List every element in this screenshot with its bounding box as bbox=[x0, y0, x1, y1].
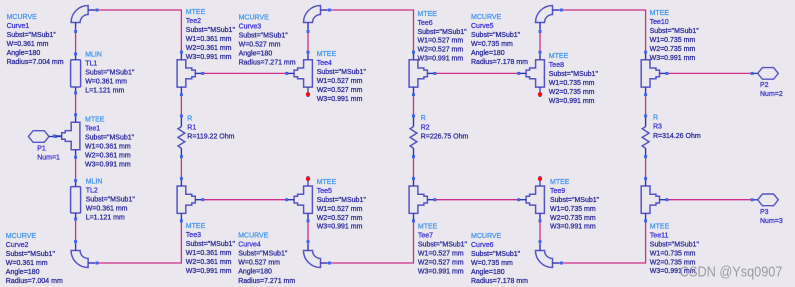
wire Tee4 to Curve3 bbox=[307, 32, 309, 52]
wire Tee10 to P2 bbox=[668, 72, 750, 74]
wire Tee10 to R3 bbox=[645, 95, 647, 115]
svg-text:Subst="MSub1": Subst="MSub1" bbox=[239, 32, 289, 39]
svg-text:W2=0.527 mm: W2=0.527 mm bbox=[418, 47, 464, 54]
svg-text:Tee3: Tee3 bbox=[186, 232, 201, 239]
svg-text:CSDN @Ysq0907: CSDN @Ysq0907 bbox=[680, 263, 783, 279]
svg-text:Subst="MSub1": Subst="MSub1" bbox=[471, 32, 521, 39]
svg-text:Tee11: Tee11 bbox=[650, 232, 669, 239]
svg-text:P1: P1 bbox=[37, 146, 46, 153]
svg-text:Curve3: Curve3 bbox=[239, 23, 262, 30]
svg-text:Curve4: Curve4 bbox=[238, 242, 261, 249]
svg-text:W3=0.991 mm: W3=0.991 mm bbox=[418, 268, 464, 275]
svg-text:Angle=180: Angle=180 bbox=[238, 269, 272, 276]
svg-text:Angle=180: Angle=180 bbox=[6, 269, 40, 276]
svg-text:W=0.361 mm: W=0.361 mm bbox=[6, 260, 48, 267]
mlin TL2 bbox=[71, 179, 136, 222]
svg-text:Subst="MSub1": Subst="MSub1" bbox=[418, 241, 468, 248]
svg-text:Subst="MSub1": Subst="MSub1" bbox=[238, 251, 288, 258]
wire R3 to Tee11 bbox=[645, 158, 647, 178]
svg-text:W2=0.735 mm: W2=0.735 mm bbox=[650, 46, 696, 53]
svg-text:Subst="MSub1": Subst="MSub1" bbox=[85, 134, 135, 141]
svg-text:W3=0.991 mm: W3=0.991 mm bbox=[550, 224, 596, 231]
svg-text:W2=0.735 mm: W2=0.735 mm bbox=[549, 89, 595, 96]
svg-text:P2: P2 bbox=[760, 82, 769, 89]
svg-text:MCURVE: MCURVE bbox=[239, 14, 270, 21]
svg-text:R=119.22 Ohm: R=119.22 Ohm bbox=[187, 134, 234, 141]
svg-text:R1: R1 bbox=[187, 125, 196, 132]
svg-text:Subst="MSub1": Subst="MSub1" bbox=[549, 71, 599, 78]
svg-text:Subst="MSub1": Subst="MSub1" bbox=[650, 241, 700, 248]
curve Curve4 MCURVE bbox=[238, 233, 331, 285]
svg-text:W3=0.991 mm: W3=0.991 mm bbox=[549, 98, 595, 105]
wire Curve4 to Tee7 (bottom rail) bbox=[331, 222, 414, 263]
wire Tee2 to Tee4 bbox=[204, 72, 285, 74]
curve Curve2 MCURVE bbox=[6, 233, 99, 285]
svg-text:Radius=7.178 mm: Radius=7.178 mm bbox=[471, 278, 528, 285]
svg-text:Tee9: Tee9 bbox=[550, 188, 565, 195]
svg-text:W3=0.991 mm: W3=0.991 mm bbox=[418, 56, 464, 63]
svg-text:Tee7: Tee7 bbox=[418, 233, 433, 240]
svg-text:W3=0.991 mm: W3=0.991 mm bbox=[186, 268, 232, 275]
resistor R1 bbox=[178, 114, 235, 158]
svg-text:Angle=180: Angle=180 bbox=[239, 50, 273, 57]
svg-text:Curve6: Curve6 bbox=[471, 242, 494, 249]
svg-text:W3=0.991 mm: W3=0.991 mm bbox=[186, 54, 232, 61]
svg-text:MTEE: MTEE bbox=[550, 179, 570, 186]
svg-text:R=226.75 Ohm: R=226.75 Ohm bbox=[421, 134, 469, 141]
svg-text:MCURVE: MCURVE bbox=[7, 14, 38, 21]
port P2 bbox=[751, 68, 783, 98]
svg-text:MTEE: MTEE bbox=[650, 10, 670, 17]
svg-text:R3: R3 bbox=[653, 124, 662, 131]
svg-text:Num=3: Num=3 bbox=[760, 218, 783, 225]
svg-text:W1=0.735 mm: W1=0.735 mm bbox=[549, 80, 595, 87]
svg-text:Subst="MSub1": Subst="MSub1" bbox=[550, 197, 600, 204]
svg-text:Curve2: Curve2 bbox=[6, 242, 29, 249]
svg-text:L=1.121 mm: L=1.121 mm bbox=[86, 215, 125, 222]
svg-text:MLIN: MLIN bbox=[85, 52, 102, 59]
wire Tee5 to Curve4 bbox=[307, 222, 309, 240]
wire Curve5 to Tee10 (top rail) bbox=[563, 10, 646, 52]
svg-text:W1=0.527 mm: W1=0.527 mm bbox=[418, 250, 464, 257]
svg-text:MTEE: MTEE bbox=[317, 179, 337, 186]
svg-text:Radius=7.004 mm: Radius=7.004 mm bbox=[6, 278, 63, 285]
svg-text:W1=0.361 mm: W1=0.361 mm bbox=[85, 143, 131, 150]
svg-text:Subst="MSub1": Subst="MSub1" bbox=[317, 69, 367, 76]
svg-text:TL1: TL1 bbox=[85, 61, 97, 68]
svg-text:W2=0.527 mm: W2=0.527 mm bbox=[317, 215, 363, 222]
port P3 bbox=[751, 194, 783, 225]
svg-text:Angle=180: Angle=180 bbox=[471, 50, 505, 57]
svg-text:MTEE: MTEE bbox=[418, 11, 438, 18]
svg-text:W1=0.527 mm: W1=0.527 mm bbox=[317, 78, 363, 85]
svg-text:Radius=7.271 mm: Radius=7.271 mm bbox=[239, 59, 296, 66]
tee Tee9 MTEE bbox=[517, 176, 599, 231]
curve Curve3 MCURVE bbox=[239, 6, 331, 67]
wire TL2 to Curve2 bbox=[75, 220, 77, 240]
resistor R3 bbox=[642, 114, 701, 158]
svg-text:Curve5: Curve5 bbox=[471, 23, 494, 30]
tee Tee8 MTEE bbox=[517, 51, 598, 105]
svg-text:Radius=7.004 mm: Radius=7.004 mm bbox=[7, 59, 64, 66]
svg-text:W3=0.991 mm: W3=0.991 mm bbox=[650, 55, 696, 62]
svg-text:MCURVE: MCURVE bbox=[471, 14, 502, 21]
svg-text:Subst="MSub1": Subst="MSub1" bbox=[6, 251, 56, 258]
tee Tee3 MTEE bbox=[177, 177, 235, 275]
svg-text:MTEE: MTEE bbox=[650, 224, 670, 231]
svg-text:W3=0.991 mm: W3=0.991 mm bbox=[317, 96, 363, 103]
wire Tee11 to P3 bbox=[668, 199, 750, 201]
svg-text:Tee6: Tee6 bbox=[418, 20, 433, 27]
svg-text:MTEE: MTEE bbox=[549, 53, 569, 60]
svg-text:Radius=7.271 mm: Radius=7.271 mm bbox=[238, 278, 295, 285]
watermark bbox=[680, 263, 783, 279]
svg-text:W=0.361 mm: W=0.361 mm bbox=[7, 41, 49, 48]
svg-text:Subst="MSub1": Subst="MSub1" bbox=[418, 29, 468, 36]
svg-text:MLIN: MLIN bbox=[86, 179, 103, 186]
svg-text:R: R bbox=[421, 115, 426, 122]
svg-text:R: R bbox=[653, 115, 658, 122]
wire Tee6 to Tee8 bbox=[436, 72, 517, 74]
svg-text:Curve1: Curve1 bbox=[7, 23, 30, 30]
resistor R2 bbox=[410, 114, 468, 158]
tee Tee7 MTEE bbox=[409, 177, 467, 275]
svg-text:W1=0.735 mm: W1=0.735 mm bbox=[550, 206, 596, 213]
svg-text:Subst="MSub1": Subst="MSub1" bbox=[471, 251, 521, 258]
svg-text:W=0.527 mm: W=0.527 mm bbox=[239, 41, 281, 48]
svg-text:W1=0.735 mm: W1=0.735 mm bbox=[650, 250, 696, 257]
svg-text:Num=1: Num=1 bbox=[37, 155, 60, 162]
svg-text:W1=0.735 mm: W1=0.735 mm bbox=[650, 37, 696, 44]
svg-text:MCURVE: MCURVE bbox=[471, 233, 502, 240]
svg-text:Subst="MSub1": Subst="MSub1" bbox=[317, 197, 367, 204]
svg-text:MCURVE: MCURVE bbox=[6, 233, 37, 240]
tee Tee1 MTEE bbox=[53, 113, 135, 168]
wire Tee7 to Tee9 bbox=[436, 199, 517, 201]
svg-text:W2=0.527 mm: W2=0.527 mm bbox=[418, 259, 464, 266]
wire Curve1 to Tee2 (top rail) bbox=[98, 10, 181, 52]
svg-text:R=314.26 Ohm: R=314.26 Ohm bbox=[653, 133, 701, 140]
wire Tee3 to Tee5 bbox=[204, 199, 285, 201]
svg-text:W=0.735 mm: W=0.735 mm bbox=[471, 260, 513, 267]
svg-text:Subst="MSub1": Subst="MSub1" bbox=[86, 197, 136, 204]
svg-text:TL2: TL2 bbox=[86, 188, 98, 195]
wire Curve6 to Tee11 (bottom rail) bbox=[563, 222, 646, 263]
svg-text:Tee5: Tee5 bbox=[317, 188, 332, 195]
tee Tee5 MTEE bbox=[285, 176, 366, 231]
curve Curve5 MCURVE bbox=[471, 6, 563, 67]
curve Curve1 MCURVE bbox=[7, 6, 99, 67]
svg-text:W3=0.991 mm: W3=0.991 mm bbox=[317, 224, 363, 231]
tee Tee2 MTEE bbox=[177, 9, 235, 96]
svg-text:MTEE: MTEE bbox=[186, 9, 206, 16]
tee Tee10 MTEE bbox=[641, 10, 699, 96]
svg-text:MTEE: MTEE bbox=[418, 224, 438, 231]
wire Tee8 to Curve5 bbox=[539, 32, 541, 52]
wire Curve3 to Tee6 (top rail) bbox=[331, 10, 414, 52]
svg-text:MTEE: MTEE bbox=[317, 51, 337, 58]
svg-text:Tee4: Tee4 bbox=[317, 60, 332, 67]
svg-text:Subst="MSub1": Subst="MSub1" bbox=[85, 70, 135, 77]
svg-text:MTEE: MTEE bbox=[186, 223, 206, 230]
svg-text:Subst="MSub1": Subst="MSub1" bbox=[186, 241, 236, 248]
svg-text:W1=0.527 mm: W1=0.527 mm bbox=[418, 38, 464, 45]
svg-text:Subst="MSub1": Subst="MSub1" bbox=[650, 28, 700, 35]
svg-text:Num=2: Num=2 bbox=[760, 91, 783, 98]
tee Tee6 MTEE bbox=[409, 11, 467, 96]
wire R2 to Tee7 bbox=[413, 158, 415, 178]
wire Tee1 top to TL1 bbox=[75, 95, 77, 114]
svg-text:Tee10: Tee10 bbox=[650, 19, 669, 26]
wire Tee2 to R1 bbox=[180, 95, 182, 115]
tee Tee11 MTEE bbox=[641, 177, 699, 275]
wire Curve2 to Tee3 (bottom rail) bbox=[98, 222, 181, 263]
svg-text:Radius=7.178 mm: Radius=7.178 mm bbox=[471, 59, 528, 66]
svg-text:W=0.735 mm: W=0.735 mm bbox=[471, 41, 513, 48]
wire TL1 to Curve1 bbox=[75, 32, 77, 52]
svg-text:W=0.361 mm: W=0.361 mm bbox=[86, 206, 128, 213]
tee Tee4 MTEE bbox=[285, 51, 366, 103]
svg-text:W2=0.361 mm: W2=0.361 mm bbox=[186, 259, 232, 266]
svg-text:MCURVE: MCURVE bbox=[238, 233, 269, 240]
svg-text:W2=0.527 mm: W2=0.527 mm bbox=[317, 87, 363, 94]
svg-text:L=1.121 mm: L=1.121 mm bbox=[85, 88, 124, 95]
svg-text:W2=0.735 mm: W2=0.735 mm bbox=[550, 215, 596, 222]
wire Tee1 bottom to TL2 bbox=[75, 158, 77, 179]
svg-text:Angle=180: Angle=180 bbox=[7, 50, 41, 57]
curve Curve6 MCURVE bbox=[471, 233, 563, 285]
wire R1 to Tee3 bbox=[180, 158, 182, 178]
svg-text:W=0.527 mm: W=0.527 mm bbox=[238, 260, 280, 267]
svg-text:W1=0.527 mm: W1=0.527 mm bbox=[317, 206, 363, 213]
wire Tee9 to Curve6 bbox=[539, 222, 541, 240]
port P1 bbox=[28, 131, 61, 162]
svg-text:W2=0.361 mm: W2=0.361 mm bbox=[85, 152, 131, 159]
svg-text:R: R bbox=[187, 115, 192, 122]
svg-text:R2: R2 bbox=[421, 124, 430, 131]
svg-text:W1=0.361 mm: W1=0.361 mm bbox=[186, 36, 232, 43]
svg-text:Tee1: Tee1 bbox=[85, 125, 100, 132]
svg-text:Subst="MSub1": Subst="MSub1" bbox=[186, 27, 236, 34]
wire Tee6 to R2 bbox=[413, 95, 415, 115]
svg-text:Angle=180: Angle=180 bbox=[471, 269, 505, 276]
svg-text:W3=0.991 mm: W3=0.991 mm bbox=[85, 161, 131, 168]
svg-text:W1=0.361 mm: W1=0.361 mm bbox=[186, 250, 232, 257]
svg-text:P3: P3 bbox=[760, 209, 769, 216]
svg-text:Subst="MSub1": Subst="MSub1" bbox=[7, 32, 57, 39]
svg-text:Tee2: Tee2 bbox=[186, 18, 201, 25]
svg-text:MTEE: MTEE bbox=[85, 116, 105, 123]
mlin TL1 bbox=[71, 52, 135, 95]
svg-text:W2=0.361 mm: W2=0.361 mm bbox=[186, 45, 232, 52]
svg-text:W=0.361 mm: W=0.361 mm bbox=[85, 79, 127, 86]
svg-text:Tee8: Tee8 bbox=[549, 62, 564, 69]
